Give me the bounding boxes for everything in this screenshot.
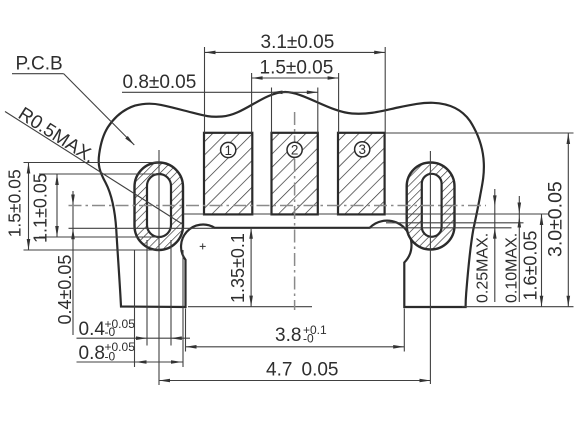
- svg-text:0.05: 0.05: [302, 360, 339, 381]
- svg-text:0.8: 0.8: [79, 343, 105, 364]
- svg-text:1.1±0.05: 1.1±0.05: [31, 173, 51, 243]
- svg-text:3.0±0.05: 3.0±0.05: [545, 181, 567, 257]
- svg-text:1.5±0.05: 1.5±0.05: [4, 169, 24, 237]
- svg-text:1.35±0.1: 1.35±0.1: [228, 233, 248, 303]
- svg-text:1.5±0.05: 1.5±0.05: [260, 58, 334, 79]
- svg-text:0.25MAX.: 0.25MAX.: [475, 233, 492, 303]
- svg-text:3: 3: [358, 142, 366, 157]
- svg-text:R0.5MAX.: R0.5MAX.: [14, 104, 98, 168]
- svg-text:1: 1: [224, 143, 232, 158]
- svg-text:-0: -0: [105, 325, 116, 339]
- svg-text:0.4±0.05: 0.4±0.05: [55, 255, 75, 325]
- svg-text:-0: -0: [303, 331, 314, 345]
- svg-text:2: 2: [291, 143, 299, 158]
- svg-text:3.8: 3.8: [275, 325, 301, 346]
- svg-text:0.8±0.05: 0.8±0.05: [123, 72, 197, 93]
- svg-text:0.4: 0.4: [79, 319, 106, 340]
- svg-text:P.C.B: P.C.B: [16, 54, 63, 75]
- svg-text:0.10MAX.: 0.10MAX.: [504, 233, 521, 303]
- svg-text:1.6±0.05: 1.6±0.05: [521, 231, 541, 301]
- svg-text:3.1±0.05: 3.1±0.05: [261, 32, 335, 53]
- svg-text:4.7: 4.7: [266, 360, 292, 381]
- svg-text:-0: -0: [105, 350, 116, 364]
